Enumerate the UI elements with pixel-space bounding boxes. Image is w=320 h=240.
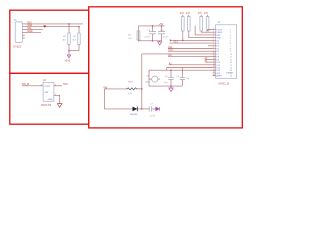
junction node on SDA wire	[78, 26, 80, 28]
svg-text:470: 470	[180, 13, 185, 15]
crystal Y1	[152, 76, 158, 82]
pin stub 6	[22, 37, 25, 39]
svg-text:470: 470	[198, 13, 203, 15]
svg-text:D3: D3	[216, 43, 219, 45]
wire bottom rail caps	[138, 40, 161, 42]
svg-text:8: 8	[213, 47, 214, 49]
svg-text:D13: D13	[216, 70, 221, 72]
junction node C6 top	[161, 25, 163, 27]
svg-text:GY521: GY521	[13, 45, 21, 48]
wire diode to node	[137, 108, 149, 110]
svg-text:1N4148: 1N4148	[130, 114, 138, 116]
svg-text:MCP1700: MCP1700	[41, 105, 52, 107]
svg-text:4.7uF: 4.7uF	[144, 37, 150, 39]
wire R2 bottom	[68, 45, 70, 51]
ground symbol caps	[158, 42, 162, 45]
svg-text:3V3: 3V3	[216, 73, 220, 75]
svg-text:16M: 16M	[145, 81, 149, 83]
svg-text:VIN: VIN	[44, 92, 48, 94]
svg-text:22p: 22p	[186, 78, 190, 80]
junction node stair	[182, 40, 184, 42]
svg-text:AREF: AREF	[216, 75, 222, 78]
wire 3V3	[22, 23, 83, 25]
wire U2 output	[54, 85, 62, 87]
frame bottom-left section border	[10, 73, 89, 124]
svg-text:D11: D11	[216, 65, 220, 67]
wire +5V rail	[138, 25, 164, 27]
ground symbol right-pointing	[156, 107, 159, 111]
svg-text:D0/RX: D0/RX	[216, 32, 223, 34]
frame right section border	[89, 7, 243, 128]
ground symbol U2	[57, 104, 62, 108]
svg-text:2: 2	[213, 31, 214, 33]
svg-text:9: 9	[230, 51, 232, 53]
svg-text:0.1uF: 0.1uF	[162, 37, 168, 39]
svg-text:GND: GND	[27, 30, 33, 33]
wire SCL	[22, 29, 43, 31]
svg-text:J3: J3	[14, 19, 17, 22]
svg-text:16: 16	[213, 69, 215, 71]
svg-text:12: 12	[213, 58, 215, 60]
wire stair R6	[201, 31, 212, 32]
resistor R4	[182, 17, 185, 32]
svg-text:J4: J4	[217, 22, 220, 24]
resistor R3	[78, 33, 80, 45]
svg-text:D10: D10	[216, 62, 221, 64]
svg-text:R1: R1	[128, 35, 132, 37]
capacitor C7	[148, 106, 150, 111]
capacitor C6	[161, 26, 163, 32]
svg-text:9: 9	[213, 50, 214, 52]
svg-text:+3V3: +3V3	[64, 59, 70, 62]
svg-text:4: 4	[213, 36, 214, 38]
svg-text:D1/TX: D1/TX	[216, 29, 222, 31]
wire crystal left	[148, 70, 150, 86]
wire row p8	[168, 48, 213, 50]
svg-text:11: 11	[213, 55, 215, 57]
svg-text:11: 11	[230, 57, 233, 59]
wire stair R4	[183, 31, 213, 40]
pin stub 5	[22, 34, 25, 36]
svg-text:7: 7	[213, 44, 214, 46]
svg-text:1: 1	[213, 28, 214, 30]
wire elbow crystal	[166, 68, 168, 71]
wire SDA	[22, 26, 79, 28]
connector J3 (IMU header)	[15, 22, 22, 43]
svg-text:470: 470	[186, 13, 191, 15]
wire row p15 crystal A	[167, 67, 213, 69]
wire resistor R2 drop	[68, 24, 70, 33]
svg-text:D4: D4	[216, 46, 219, 48]
resistor pair top stubs	[182, 15, 184, 17]
svg-text:4: 4	[230, 38, 232, 40]
wire VIN_M to U2	[22, 85, 43, 87]
frame top-left section border	[10, 10, 89, 73]
svg-text:5: 5	[230, 40, 232, 42]
svg-text:RST: RST	[216, 35, 221, 37]
net flag row p5	[170, 39, 173, 41]
svg-text:5V0: 5V0	[63, 83, 68, 86]
svg-text:6: 6	[230, 43, 232, 45]
junction node C5 top	[152, 25, 154, 27]
svg-text:18: 18	[230, 76, 233, 78]
svg-text:6: 6	[213, 42, 214, 44]
svg-text:0.1uF: 0.1uF	[149, 116, 155, 118]
resistor R1	[137, 31, 140, 40]
svg-text:18: 18	[213, 74, 215, 76]
svg-text:D2: D2	[216, 40, 219, 42]
svg-text:14: 14	[213, 64, 215, 66]
svg-text:2: 2	[230, 32, 232, 34]
wire power drop	[68, 51, 70, 55]
wire VIN horizontal	[105, 88, 127, 90]
wire U2 ground	[54, 95, 60, 103]
junction node crystal gnd	[170, 85, 172, 87]
junction node diode	[141, 108, 143, 110]
svg-text:1: 1	[230, 29, 232, 31]
junction node on 3V3 wire	[68, 23, 70, 25]
ground symbol crystal	[170, 86, 172, 88]
capacitor C9	[181, 68, 183, 78]
svg-text:13: 13	[230, 62, 233, 64]
diode D1	[133, 107, 138, 112]
svg-text:10: 10	[213, 53, 215, 55]
svg-text:3: 3	[213, 34, 214, 36]
wire GND	[22, 31, 41, 33]
wire R10 to node	[138, 88, 142, 90]
power symbol +3V3	[67, 55, 70, 58]
svg-text:D6: D6	[216, 51, 219, 53]
svg-text:NANO_18: NANO_18	[219, 82, 230, 85]
svg-text:13: 13	[213, 61, 215, 63]
svg-text:GND: GND	[216, 38, 221, 40]
resistor R10 zigzag	[126, 88, 138, 90]
svg-text:10: 10	[230, 54, 233, 56]
svg-text:8: 8	[230, 48, 232, 50]
wire row p14	[169, 64, 213, 66]
svg-text:C7: C7	[150, 104, 154, 106]
svg-text:R3: R3	[73, 36, 77, 38]
wire row p12	[205, 58, 213, 60]
svg-text:3: 3	[230, 35, 232, 37]
svg-text:D12: D12	[216, 68, 221, 70]
svg-text:4k7: 4k7	[62, 40, 66, 42]
svg-text:17: 17	[213, 72, 215, 74]
capacitor C5	[152, 26, 154, 32]
junction node cap C8 top	[170, 69, 172, 71]
svg-text:VIN_M: VIN_M	[22, 83, 29, 86]
svg-text:4.7k: 4.7k	[128, 93, 133, 95]
wire R3 bottom	[78, 45, 80, 51]
wire row p7 stub	[208, 45, 213, 47]
svg-text:15: 15	[230, 68, 233, 70]
junction node R10	[141, 88, 143, 90]
wire row p11	[168, 56, 213, 58]
wire stair mid	[195, 26, 213, 35]
wire VIN down	[105, 89, 133, 109]
svg-text:RESET: RESET	[227, 72, 234, 74]
wire row p16 crystal B	[149, 69, 213, 71]
svg-text:D5: D5	[216, 48, 219, 50]
svg-text:D10: D10	[169, 50, 174, 52]
svg-text:10k: 10k	[128, 38, 132, 40]
resistor R7	[206, 17, 209, 32]
resistor R5	[188, 17, 191, 32]
wire row p13	[205, 61, 213, 63]
wire resistor R3 drop	[78, 27, 80, 33]
svg-text:7: 7	[230, 46, 232, 48]
svg-text:D9: D9	[216, 59, 219, 61]
svg-text:D8: D8	[216, 57, 219, 59]
svg-text:R10: R10	[129, 82, 134, 84]
svg-text:C8: C8	[165, 76, 169, 78]
wire left branch	[137, 26, 139, 42]
svg-text:22p: 22p	[164, 82, 168, 84]
svg-text:5: 5	[213, 39, 214, 41]
wire row p9	[168, 50, 213, 52]
wire VIN vertical	[141, 54, 143, 109]
svg-text:12: 12	[230, 59, 233, 61]
svg-text:U2: U2	[43, 79, 47, 82]
wire crystal bottom rail	[149, 85, 182, 87]
wire stair R7	[208, 30, 213, 32]
svg-text:14: 14	[230, 65, 233, 67]
svg-text:R2: R2	[63, 36, 67, 38]
net flag on SDA wire	[43, 26, 46, 28]
capacitor C8	[170, 70, 172, 77]
resistor R6	[200, 17, 203, 32]
regulator U2	[43, 82, 54, 101]
wire join	[69, 50, 79, 52]
connector J4 pins	[213, 29, 216, 31]
junction node bottom	[152, 40, 154, 42]
wire row p6	[170, 42, 213, 44]
resistor R2	[68, 33, 70, 45]
svg-text:15: 15	[213, 66, 215, 68]
svg-text:D7: D7	[216, 54, 219, 56]
wire row p10 VIN	[142, 53, 213, 55]
svg-text:C9: C9	[176, 76, 180, 78]
junction node join	[68, 50, 70, 52]
svg-text:GND: GND	[48, 99, 53, 101]
svg-text:VOUT: VOUT	[44, 86, 51, 88]
svg-text:4k7: 4k7	[72, 40, 76, 42]
connector J4	[216, 25, 237, 79]
wire stair R5	[189, 31, 213, 38]
